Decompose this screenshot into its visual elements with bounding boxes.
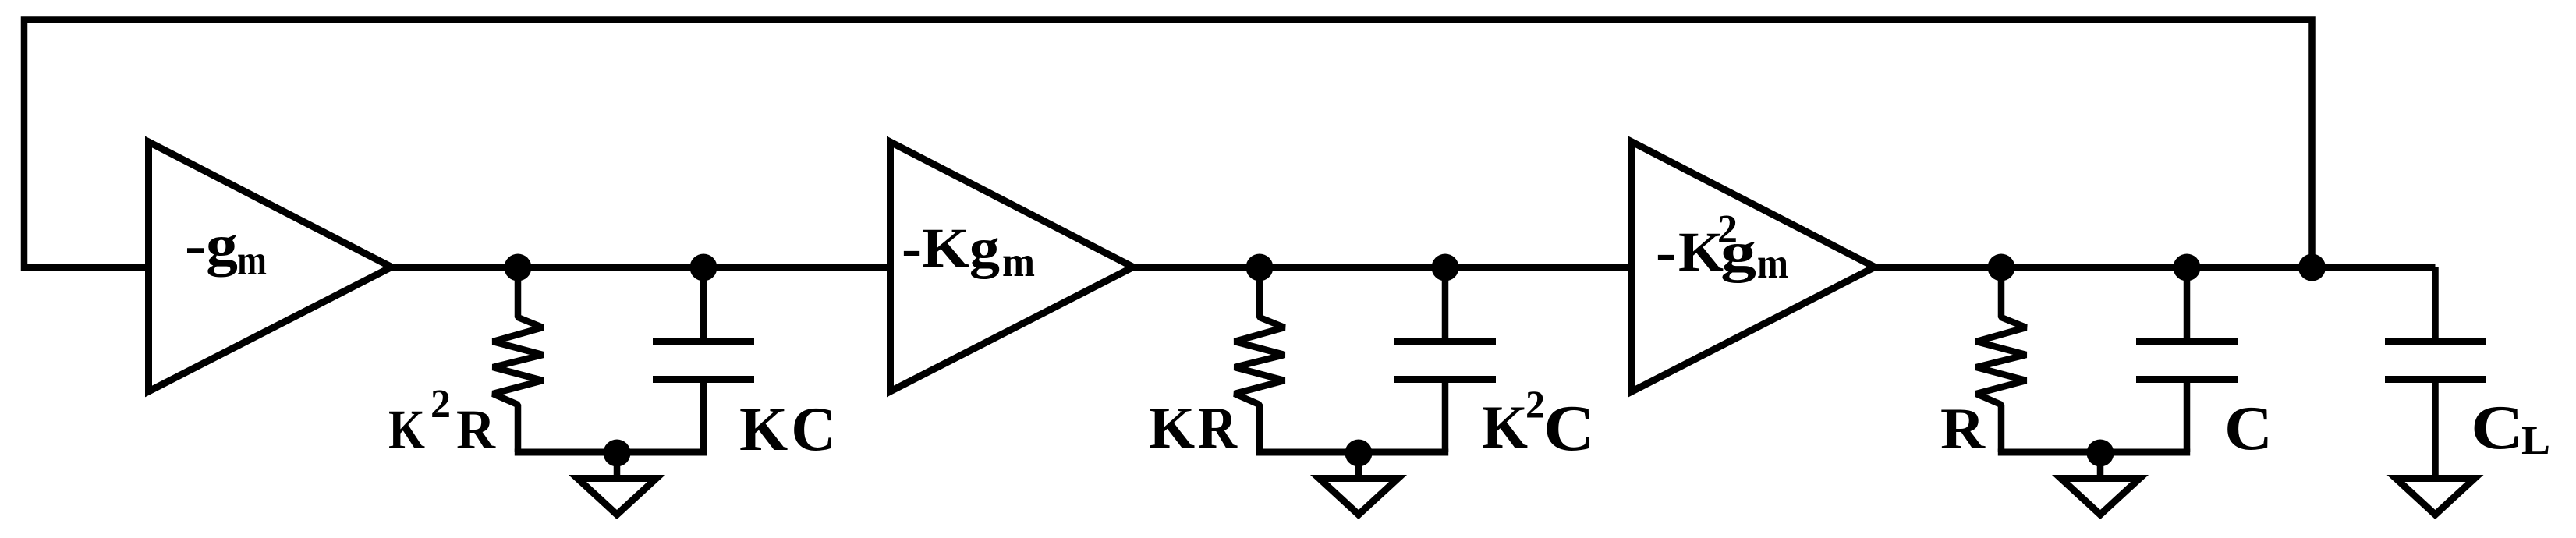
label -gm (U1) — [185, 214, 267, 284]
svg-text:2: 2 — [431, 382, 451, 427]
svg-text:K: K — [1482, 393, 1528, 461]
capacitor C (stage3) — [2136, 267, 2238, 452]
node C: stage2 resistor tap — [1246, 254, 1274, 281]
svg-text:-g: -g — [185, 214, 238, 278]
wire feedback loop: output node up, across top, down to input — [24, 20, 2312, 271]
ground stage3 — [2061, 440, 2140, 515]
svg-text:m: m — [1757, 239, 1788, 287]
wire stage3 bottom — [1998, 449, 2190, 456]
node B: stage1 capacitor tap — [690, 254, 718, 281]
label -Kgm (U2) — [902, 217, 1035, 285]
svg-text:-Kg: -Kg — [902, 217, 1000, 279]
node G: feedback takeoff — [2298, 254, 2326, 281]
svg-text:g: g — [1720, 221, 1756, 283]
svg-text:KC: KC — [739, 395, 839, 464]
ground stage1 — [578, 440, 657, 515]
capacitor KC (stage1) — [653, 267, 754, 452]
label K2C (capacitor stage2) — [1482, 382, 1595, 465]
wire stage2 output — [1133, 264, 1632, 271]
svg-text:K: K — [388, 398, 425, 461]
svg-text:R: R — [1198, 395, 1238, 461]
svg-text:R: R — [456, 398, 496, 461]
svg-text:R: R — [1940, 397, 1986, 462]
svg-text:C: C — [1543, 392, 1595, 465]
label K2R (resistor stage1) — [388, 382, 496, 461]
resistor R (stage3) — [1976, 267, 2026, 452]
svg-text:K: K — [1149, 395, 1195, 461]
wire stage2 bottom — [1256, 449, 1448, 456]
svg-text:m: m — [1002, 238, 1035, 285]
op-amp U3 (-K2gm) — [1632, 142, 1876, 391]
ground load — [2396, 479, 2475, 515]
svg-text:L: L — [2521, 419, 2550, 463]
svg-text:-: - — [1656, 221, 1676, 283]
ground stage2 — [1320, 440, 1398, 515]
capacitor K2C (stage2) — [1394, 267, 1496, 452]
wire stage1 output — [392, 264, 891, 271]
wire stage1 bottom — [515, 449, 707, 456]
op-amp U2 (-Kgm) — [891, 142, 1134, 391]
node E: stage3 resistor tap — [1988, 254, 2015, 281]
svg-text:C: C — [2224, 395, 2273, 463]
op-amp U1 (-gm) — [149, 142, 392, 391]
svg-text:2: 2 — [1525, 382, 1545, 426]
wire stage3 output to load corner — [1875, 264, 2436, 271]
resistor KR (stage2) — [1235, 267, 1284, 452]
label -K2gm (U3) — [1656, 207, 1788, 287]
svg-text:C: C — [2471, 394, 2524, 462]
capacitor CL (load) — [2385, 267, 2486, 476]
node F: stage3 capacitor tap — [2174, 254, 2201, 281]
resistor K2R (stage1) — [493, 267, 543, 452]
label CL (load capacitor) — [2471, 394, 2550, 463]
node A: stage1 resistor tap — [505, 254, 532, 281]
node D: stage2 capacitor tap — [1432, 254, 1459, 281]
svg-text:m: m — [237, 236, 267, 284]
